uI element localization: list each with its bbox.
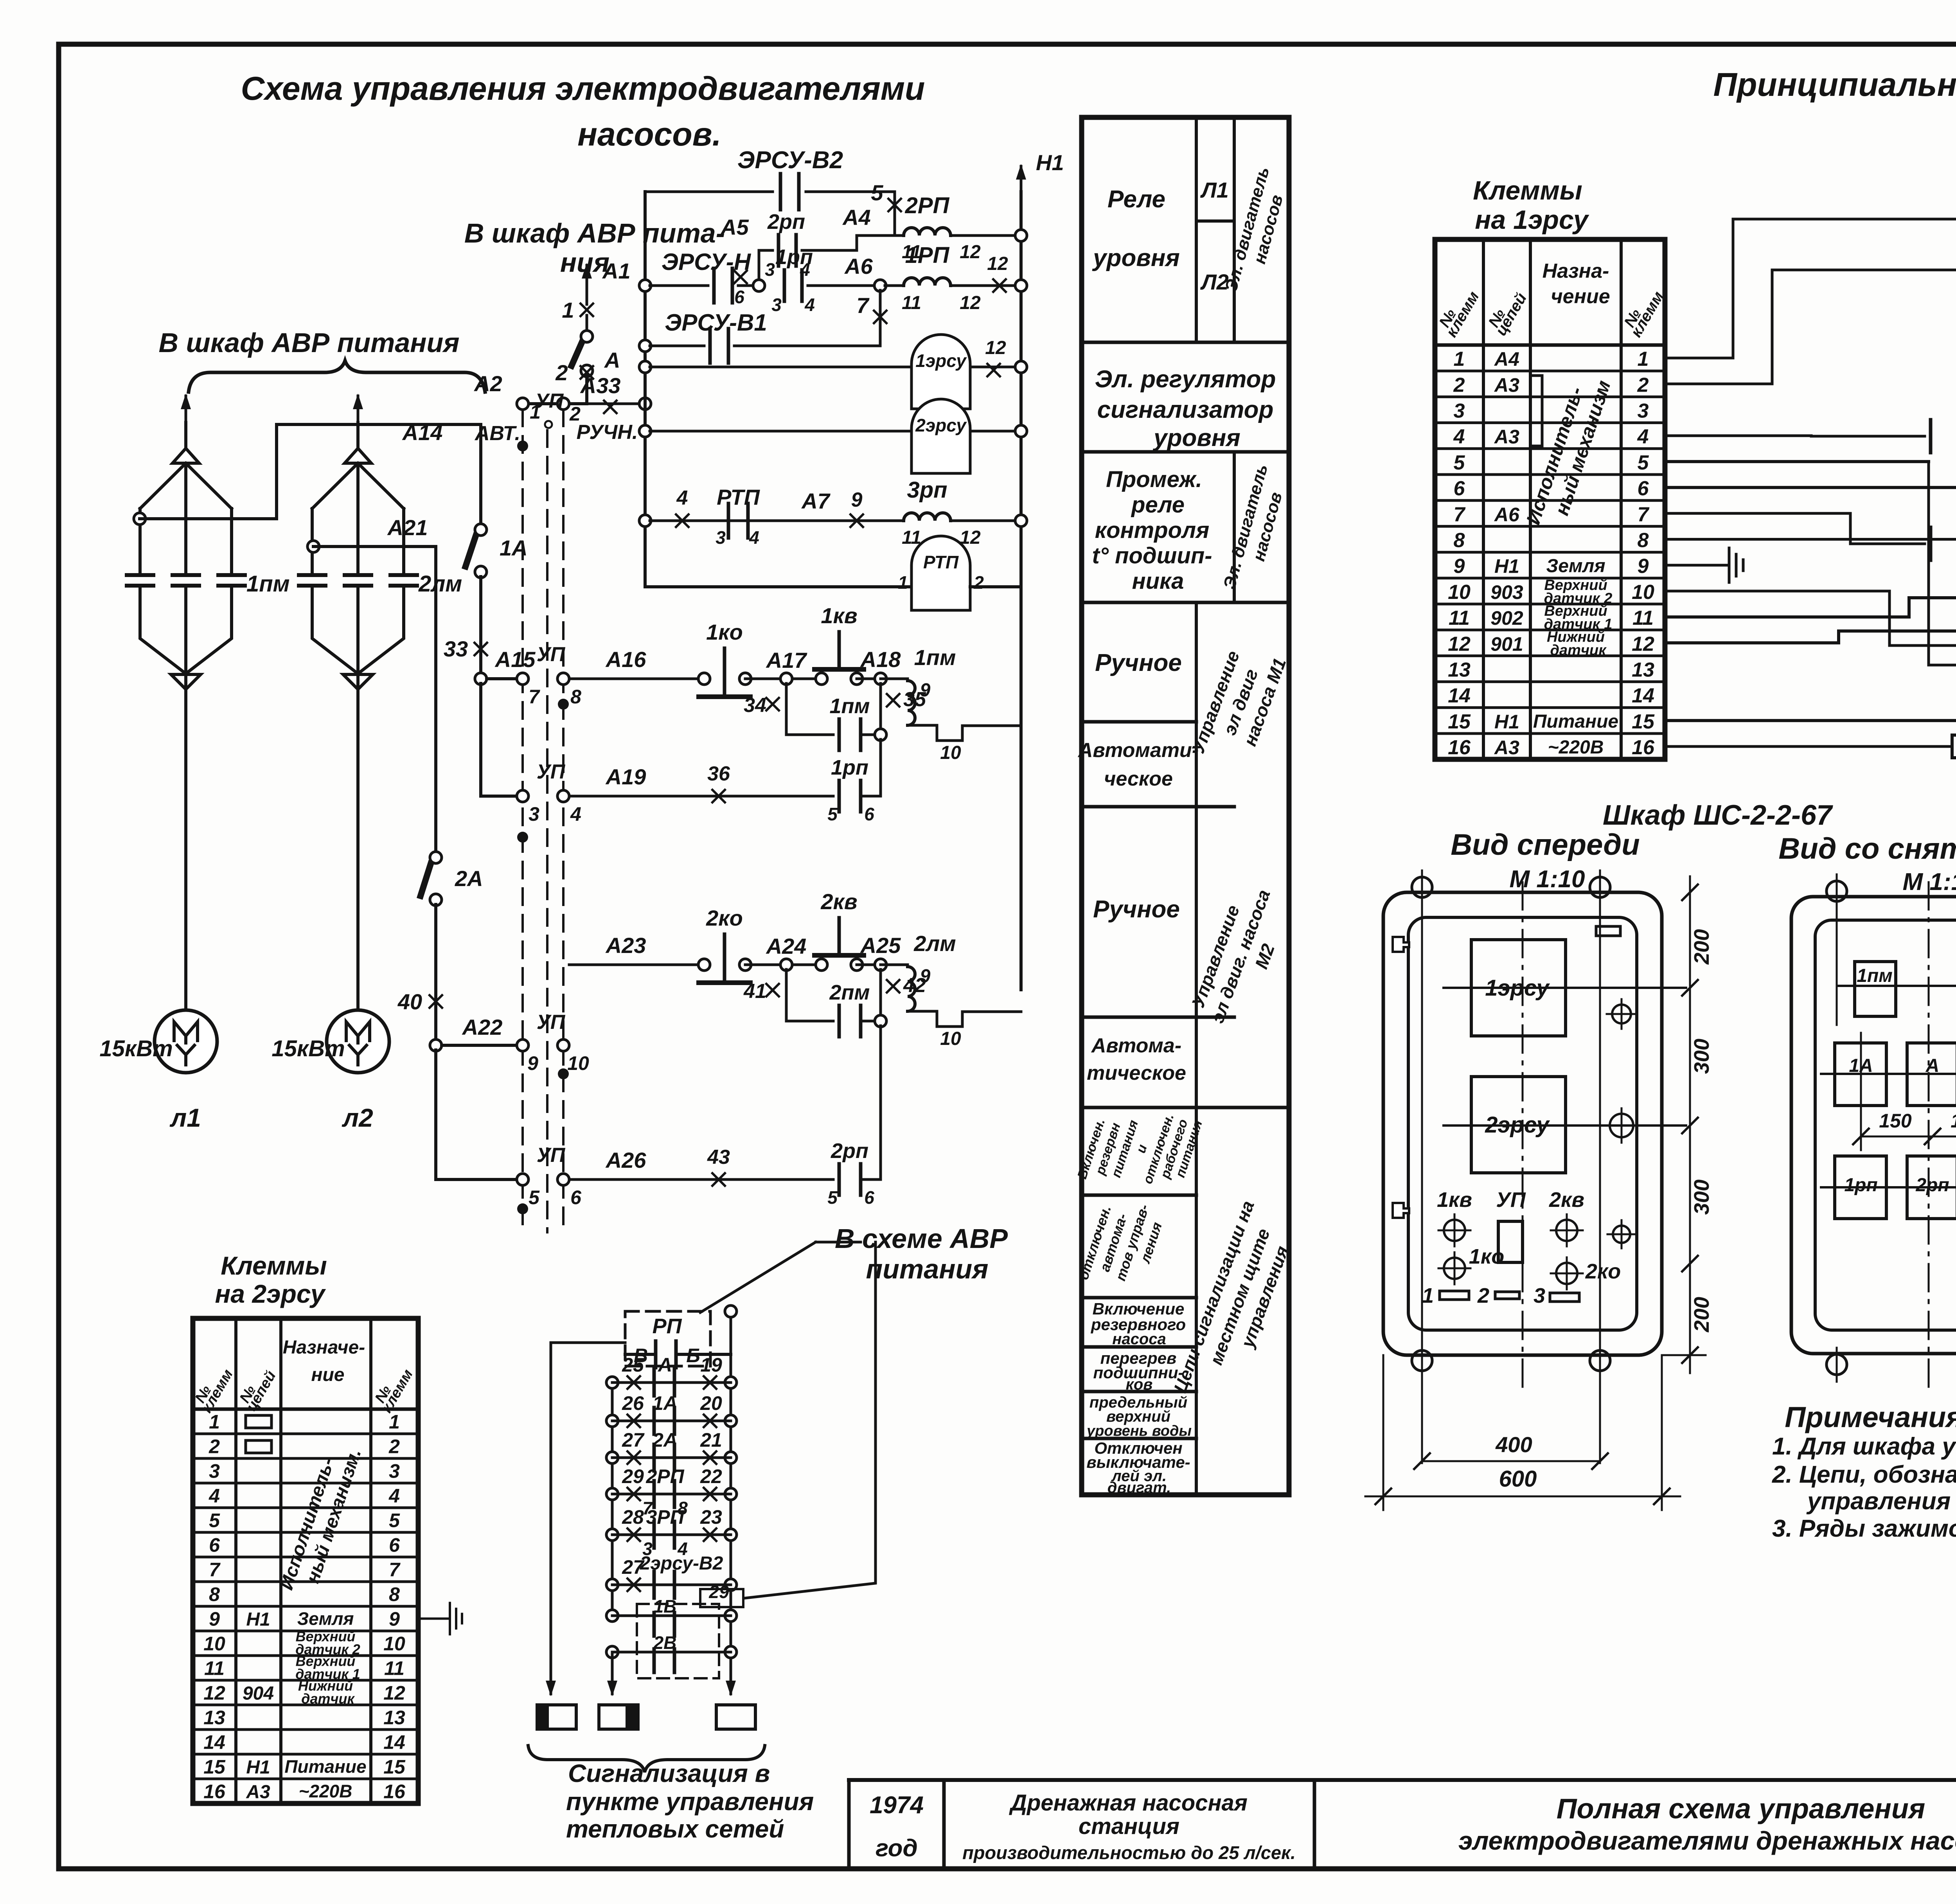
svg-text:1: 1: [389, 1411, 400, 1433]
svg-text:12: 12: [1632, 633, 1654, 655]
svg-text:1ко: 1ко: [1469, 1245, 1504, 1268]
svg-text:Схема управления электродвиг: Схема управления электродвигателями: [241, 70, 925, 107]
svg-text:904: 904: [243, 1683, 274, 1704]
squares 1ПМ 2ПМ: [1855, 962, 1896, 1016]
svg-text:12: 12: [987, 254, 1008, 274]
svg-text:5: 5: [827, 804, 838, 824]
svg-text:1пм: 1пм: [246, 571, 290, 597]
square marks rows 1-2: [246, 1415, 271, 1428]
rung ЭРСУ-В1: [639, 340, 651, 352]
svg-text:14: 14: [383, 1731, 405, 1753]
svg-text:901: 901: [1490, 633, 1523, 655]
svg-text:9: 9: [1638, 555, 1649, 578]
svg-text:2РП: 2РП: [905, 193, 950, 218]
svg-text:11: 11: [384, 1658, 405, 1679]
svg-text:питания: питания: [866, 1254, 989, 1284]
svg-text:7: 7: [529, 686, 540, 708]
svg-text:15: 15: [1448, 710, 1471, 733]
rung 2В: [606, 1646, 618, 1658]
svg-text:6: 6: [209, 1534, 220, 1556]
svg-text:Н1: Н1: [1036, 150, 1064, 175]
svg-text:15: 15: [203, 1756, 226, 1778]
rung 2ЭРСУ-В2: [606, 1579, 618, 1591]
svg-text:13: 13: [203, 1707, 225, 1729]
ladder left rail: [644, 192, 647, 587]
rung РТП / 3РП coil: [639, 515, 651, 527]
svg-text:А14: А14: [402, 420, 443, 445]
connector to АВР label: [745, 1242, 876, 1598]
svg-text:В схеме АВР: В схеме АВР: [835, 1223, 1008, 1254]
svg-text:10: 10: [940, 743, 961, 763]
svg-text:7: 7: [1638, 503, 1650, 526]
ЭРСУ-В1 row: [1665, 436, 1925, 436]
center dash axis: [1928, 882, 1930, 1391]
svg-text:10: 10: [383, 1633, 405, 1655]
svg-text:3: 3: [765, 259, 775, 280]
svg-text:А: А: [604, 348, 620, 372]
svg-text:3: 3: [771, 295, 782, 315]
svg-text:1: 1: [1454, 348, 1465, 370]
svg-text:Дренажная насосная: Дренажная насосная: [1009, 1790, 1248, 1816]
leader line: [710, 1246, 812, 1311]
svg-text:1кв: 1кв: [1437, 1188, 1472, 1212]
svg-text:7: 7: [856, 293, 870, 318]
svg-text:6: 6: [734, 287, 744, 307]
svg-text:2лм: 2лм: [913, 931, 956, 956]
svg-text:9: 9: [527, 1052, 538, 1074]
svg-text:ника: ника: [1132, 568, 1184, 594]
cabinet open inner: [1815, 920, 1956, 1330]
svg-text:12: 12: [960, 242, 981, 262]
svg-text:А3: А3: [1494, 737, 1519, 759]
svg-text:год: год: [876, 1835, 918, 1862]
svg-text:УП: УП: [537, 643, 566, 666]
rung 2ЭРСУ dome: [639, 425, 651, 437]
svg-text:РП: РП: [653, 1314, 682, 1338]
svg-text:двигат.: двигат.: [1107, 1479, 1171, 1496]
svg-text:150: 150: [1879, 1110, 1912, 1132]
svg-text:2лм: 2лм: [418, 571, 462, 597]
svg-text:Н1: Н1: [246, 1757, 270, 1778]
svg-text:8: 8: [1638, 529, 1649, 552]
arrows down: [611, 1652, 614, 1667]
svg-text:УП: УП: [537, 1011, 566, 1034]
svg-text:10: 10: [1448, 581, 1471, 604]
svg-text:РТП: РТП: [923, 552, 959, 572]
svg-text:пункте управления: пункте управления: [566, 1787, 814, 1816]
svg-text:л2: л2: [342, 1103, 373, 1132]
svg-text:Вид спереди: Вид спереди: [1451, 828, 1640, 861]
svg-text:Питание: Питание: [284, 1757, 366, 1777]
svg-text:2ко: 2ко: [706, 906, 743, 930]
svg-text:1кв: 1кв: [821, 603, 857, 628]
svg-text:насоса: насоса: [1112, 1330, 1166, 1348]
svg-text:электродвигателями дренажных: электродвигателями дренажных насосов.: [1458, 1826, 1956, 1855]
svg-text:2пм: 2пм: [829, 981, 870, 1004]
ЭРСУ-Н row: [1665, 513, 1925, 544]
svg-text:Питание: Питание: [1533, 711, 1618, 732]
svg-text:А3: А3: [1494, 374, 1519, 396]
svg-text:1: 1: [1422, 1284, 1434, 1307]
svg-text:~220В: ~220В: [299, 1781, 352, 1802]
motor л2: [327, 1010, 389, 1073]
svg-text:15кВт: 15кВт: [271, 1036, 345, 1061]
svg-text:10: 10: [1632, 581, 1654, 604]
svg-text:9: 9: [389, 1608, 400, 1630]
svg-text:2: 2: [973, 572, 984, 593]
svg-text:10: 10: [940, 1028, 961, 1049]
svg-text:Н1: Н1: [1494, 556, 1519, 577]
svg-text:Л1: Л1: [1200, 178, 1229, 202]
svg-text:13: 13: [383, 1707, 405, 1729]
svg-text:А19: А19: [605, 764, 646, 789]
svg-text:на 1эрсу: на 1эрсу: [1475, 205, 1589, 235]
svg-text:насосов.: насосов.: [577, 116, 721, 153]
feeder contactor 2лм: [357, 396, 360, 425]
svg-text:А6: А6: [1494, 503, 1520, 525]
svg-text:2эрсу: 2эрсу: [915, 415, 967, 435]
branch 2пм contact: [786, 969, 833, 1021]
svg-text:~220В: ~220В: [1548, 737, 1604, 758]
center axis dashed: [1522, 882, 1524, 1393]
svg-text:1пм: 1пм: [914, 645, 956, 670]
rung 1ЭРСУ dome: [639, 361, 651, 373]
svg-text:А3: А3: [1494, 426, 1519, 448]
svg-text:Принципиальная схема ЭРСУ-2: Принципиальная схема ЭРСУ-2: [1713, 66, 1956, 103]
svg-text:13: 13: [1632, 659, 1654, 681]
svg-text:3рп: 3рп: [907, 477, 947, 503]
motor л1: [155, 1010, 217, 1073]
svg-text:5: 5: [827, 1187, 838, 1208]
svg-text:33: 33: [444, 636, 468, 661]
svg-text:на 2эрсу: на 2эрсу: [215, 1279, 326, 1308]
svg-text:Полная схема управления: Полная схема управления: [1557, 1793, 1925, 1825]
svg-text:1рп: 1рп: [1844, 1175, 1877, 1196]
staircase wire terminal 6: [1665, 487, 1956, 634]
svg-text:УП: УП: [535, 390, 564, 412]
svg-text:Промеж.: Промеж.: [1106, 467, 1202, 492]
panel screws: [1612, 1005, 1631, 1023]
svg-text:АВТ.: АВТ.: [474, 422, 520, 445]
squares 1РП 2РП 3РП: [1835, 1156, 1886, 1219]
svg-text:4: 4: [1453, 426, 1465, 448]
bus nodes: [517, 440, 528, 451]
svg-text:Земля: Земля: [1546, 556, 1605, 577]
svg-text:3: 3: [1638, 400, 1649, 423]
svg-text:л1: л1: [169, 1103, 201, 1132]
H1 arrow at right rail: [1020, 166, 1023, 192]
svg-text:15: 15: [1632, 710, 1655, 733]
svg-text:3: 3: [389, 1460, 400, 1482]
svg-text:производительностью до 25 л/се: производительностью до 25 л/сек.: [962, 1842, 1296, 1863]
svg-text:А22: А22: [462, 1015, 503, 1039]
bottom rail with РТП dome: [645, 585, 913, 588]
branch 1пм contact: [786, 683, 833, 735]
svg-text:А5: А5: [720, 215, 749, 239]
terminal table 1ЭРСУ: [1435, 239, 1665, 759]
svg-text:16: 16: [203, 1781, 226, 1803]
svg-text:36: 36: [707, 762, 730, 785]
svg-text:А15: А15: [494, 647, 536, 672]
svg-text:16: 16: [1632, 736, 1655, 759]
mounting bolts front: [1412, 877, 1432, 897]
svg-text:7: 7: [389, 1559, 401, 1581]
dashed box 1В 2В: [637, 1604, 719, 1678]
latch marks: [1596, 926, 1620, 936]
svg-text:1974: 1974: [870, 1792, 924, 1819]
svg-text:25: 25: [622, 1354, 644, 1376]
rung А26: [569, 1178, 833, 1181]
svg-text:А17: А17: [766, 648, 808, 672]
svg-text:5: 5: [1454, 451, 1465, 474]
svg-text:В шкаф АВР питания: В шкаф АВР питания: [158, 327, 459, 358]
svg-text:300: 300: [1690, 1039, 1713, 1074]
svg-text:А25: А25: [860, 933, 901, 958]
brace signal: [528, 1746, 765, 1772]
svg-text:2. Цепи, обозначенные квадрато: 2. Цепи, обозначенные квадратом: [1772, 1461, 1956, 1488]
svg-text:27: 27: [622, 1429, 645, 1451]
svg-text:1пм: 1пм: [1857, 965, 1893, 986]
svg-text:1: 1: [898, 572, 908, 593]
svg-text:УП: УП: [1496, 1188, 1526, 1212]
svg-text:А21: А21: [387, 515, 428, 540]
svg-text:Сигнализация в: Сигнализация в: [568, 1759, 770, 1787]
svg-text:8: 8: [209, 1584, 220, 1606]
svg-text:12: 12: [383, 1682, 405, 1704]
svg-text:Реле: Реле: [1107, 186, 1165, 213]
wire A33: [517, 398, 529, 410]
svg-text:реле: реле: [1131, 492, 1185, 518]
svg-text:А3: А3: [246, 1782, 270, 1803]
svg-text:датчик: датчик: [301, 1691, 355, 1707]
svg-text:10: 10: [567, 1052, 589, 1074]
svg-text:200: 200: [1690, 929, 1713, 965]
svg-text:11: 11: [1632, 607, 1654, 629]
staircase wire terminal 12: [1665, 631, 1956, 728]
svg-text:1: 1: [562, 298, 574, 322]
svg-text:А4: А4: [1494, 348, 1519, 370]
svg-text:2рп: 2рп: [1915, 1175, 1949, 1196]
svg-text:4: 4: [676, 487, 688, 509]
svg-text:1: 1: [209, 1411, 220, 1433]
svg-text:28: 28: [622, 1506, 644, 1528]
svg-text:А: А: [657, 1354, 672, 1376]
svg-text:ние: ние: [311, 1365, 344, 1385]
svg-text:А16: А16: [605, 647, 647, 672]
svg-text:1пм: 1пм: [830, 694, 870, 718]
node A22: [430, 1039, 442, 1051]
svg-text:902: 902: [1490, 607, 1523, 629]
svg-text:2: 2: [1453, 374, 1465, 396]
svg-text:21: 21: [700, 1429, 722, 1451]
svg-text:2РП: 2РП: [645, 1465, 684, 1487]
svg-text:22: 22: [700, 1465, 722, 1487]
svg-text:управления тепловых сетей.: управления тепловых сетей.: [1806, 1488, 1956, 1515]
svg-text:29: 29: [622, 1465, 644, 1487]
svg-text:5: 5: [1638, 451, 1649, 474]
svg-text:5: 5: [389, 1510, 400, 1532]
svg-text:1рп: 1рп: [775, 245, 813, 269]
wire A14 from feeder 1: [134, 513, 146, 525]
svg-text:Ручное: Ручное: [1093, 896, 1180, 923]
svg-text:6: 6: [389, 1534, 400, 1556]
svg-text:А24: А24: [766, 934, 807, 958]
svg-text:Ручное: Ручное: [1095, 649, 1182, 676]
svg-text:1. Для шкафа управления исп: 1. Для шкафа управления используется шка…: [1772, 1433, 1956, 1460]
switch 1A and feed: [479, 424, 482, 524]
svg-text:Н1: Н1: [246, 1609, 270, 1630]
window 2ЭРСУ: [1471, 1077, 1566, 1173]
right rail РП: [730, 1311, 732, 1659]
indicator boxes: [537, 1705, 576, 1729]
svg-text:1: 1: [1638, 348, 1649, 370]
svg-text:16: 16: [383, 1781, 406, 1803]
svg-text:400: 400: [1495, 1432, 1532, 1457]
svg-text:А6: А6: [844, 254, 873, 279]
svg-text:600: 600: [1499, 1466, 1537, 1492]
svg-text:датчик: датчик: [1550, 642, 1607, 658]
svg-text:9: 9: [209, 1608, 220, 1630]
cabinet front view outer door: [1383, 892, 1662, 1355]
svg-text:ЭРСУ-В2: ЭРСУ-В2: [737, 147, 843, 174]
A1 drop with switch A: [586, 265, 588, 289]
svg-text:5: 5: [209, 1510, 220, 1532]
svg-text:уровень воды: уровень воды: [1086, 1423, 1192, 1439]
svg-text:тепловых сетей: тепловых сетей: [566, 1815, 784, 1843]
svg-text:6: 6: [864, 804, 874, 824]
svg-text:40: 40: [397, 989, 422, 1014]
РП dashed box: [625, 1311, 710, 1366]
svg-text:Назна-: Назна-: [1543, 260, 1609, 282]
cabinet open view outer: [1791, 897, 1956, 1354]
svg-text:3: 3: [1454, 400, 1465, 423]
svg-text:6: 6: [1638, 477, 1649, 500]
svg-text:2кв: 2кв: [820, 889, 857, 914]
svg-text:1ко: 1ко: [706, 620, 743, 644]
svg-text:35: 35: [903, 688, 926, 711]
svg-text:2эрсу-В2: 2эрсу-В2: [640, 1553, 723, 1574]
terminal table 2ЭРСУ: [193, 1318, 418, 1803]
svg-text:РТП: РТП: [717, 485, 760, 509]
svg-text:20: 20: [700, 1392, 722, 1414]
svg-text:26: 26: [622, 1392, 644, 1414]
svg-text:3: 3: [209, 1460, 220, 1482]
svg-text:5: 5: [529, 1187, 540, 1208]
svg-text:7: 7: [209, 1559, 221, 1581]
svg-text:t° подшип-: t° подшип-: [1092, 543, 1212, 568]
svg-text:4: 4: [749, 527, 759, 548]
svg-text:РУЧН.: РУЧН.: [577, 421, 638, 444]
svg-text:14: 14: [1632, 685, 1654, 707]
svg-text:А4: А4: [842, 205, 871, 230]
svg-text:13: 13: [1448, 659, 1471, 681]
svg-text:контроля: контроля: [1095, 518, 1210, 543]
svg-text:19: 19: [700, 1354, 722, 1376]
rung А: [606, 1377, 618, 1388]
svg-text:1эрсу: 1эрсу: [915, 351, 967, 371]
svg-text:15кВт: 15кВт: [99, 1036, 173, 1061]
rung А23: [569, 964, 700, 966]
svg-text:уровня: уровня: [1092, 245, 1180, 271]
svg-text:Клеммы: Клеммы: [221, 1251, 327, 1280]
svg-text:ЭРСУ-Н: ЭРСУ-Н: [662, 249, 751, 275]
svg-text:8: 8: [1454, 529, 1465, 552]
svg-text:6: 6: [570, 1187, 582, 1208]
svg-text:11: 11: [1449, 607, 1470, 629]
svg-text:Эл. регулятор: Эл. регулятор: [1095, 366, 1276, 393]
svg-text:А33: А33: [580, 373, 621, 398]
svg-text:1рп: 1рп: [831, 756, 868, 779]
svg-text:УП: УП: [537, 1144, 566, 1167]
mounting bolts open: [1827, 881, 1847, 901]
svg-text:Автомати-: Автомати-: [1077, 739, 1199, 762]
rung ЭРСУ-Н / 1РП coil: [639, 280, 651, 291]
rung 3РП: [606, 1529, 618, 1541]
svg-text:В шкаф АВР пита-: В шкаф АВР пита-: [464, 218, 725, 248]
squares 1А А 2А: [1835, 1043, 1886, 1106]
top rail with ЭРСУ-В2 contact: [645, 191, 773, 193]
svg-text:10: 10: [203, 1633, 225, 1655]
wire A21 from feeder 2: [307, 541, 319, 552]
rung А16: [569, 678, 700, 680]
ground row 9 (2ЭРСУ): [418, 1618, 450, 1620]
svg-text:2ко: 2ко: [1585, 1260, 1621, 1283]
svg-text:тическое: тическое: [1087, 1062, 1186, 1084]
svg-text:ческое: ческое: [1104, 768, 1173, 790]
svg-text:12: 12: [1448, 633, 1471, 655]
svg-text:А26: А26: [605, 1148, 647, 1172]
ground at terminal 9: [1665, 564, 1729, 566]
ЭРСУ-32 top block: [1665, 219, 1956, 358]
svg-text:12: 12: [960, 293, 981, 313]
svg-text:3: 3: [529, 803, 539, 825]
svg-text:9: 9: [851, 489, 863, 511]
svg-text:5: 5: [871, 180, 883, 205]
svg-text:Н1: Н1: [1494, 711, 1519, 733]
svg-text:ков: ков: [1126, 1376, 1153, 1393]
svg-text:3: 3: [1534, 1284, 1545, 1307]
svg-text:2рп: 2рп: [831, 1139, 868, 1163]
svg-text:3: 3: [716, 527, 726, 548]
fuse П: [1665, 745, 1952, 748]
svg-text:15: 15: [383, 1756, 406, 1778]
svg-text:16: 16: [1448, 736, 1471, 759]
svg-text:станция: станция: [1079, 1814, 1179, 1839]
rung 1А: [606, 1415, 618, 1427]
svg-text:Земля: Земля: [297, 1609, 354, 1629]
svg-text:2кв: 2кв: [1549, 1188, 1584, 1212]
svg-text:23: 23: [700, 1506, 722, 1528]
svg-text:1РП: 1РП: [905, 243, 950, 268]
svg-text:Назначе-: Назначе-: [283, 1337, 365, 1358]
switch 2A: [430, 852, 442, 863]
svg-text:А2: А2: [473, 371, 502, 396]
svg-text:4: 4: [209, 1485, 220, 1507]
АВР rail from box to top-right: [731, 1279, 876, 1311]
svg-text:150: 150: [1951, 1110, 1956, 1132]
svg-text:7: 7: [1454, 503, 1466, 526]
rung 2РП: [606, 1488, 618, 1500]
dim 400 / 600 bottom: [1422, 1381, 1422, 1483]
cabinet front inner panel: [1408, 917, 1637, 1330]
svg-text:Примечания: Примечания: [1785, 1401, 1956, 1433]
svg-text:А23: А23: [605, 933, 646, 958]
dims 150 150: [1861, 1136, 1956, 1138]
svg-text:12: 12: [203, 1682, 225, 1704]
title block: [849, 1778, 1956, 1782]
rung А19: [569, 795, 833, 798]
staircase wire terminal 5: [1665, 460, 1929, 463]
